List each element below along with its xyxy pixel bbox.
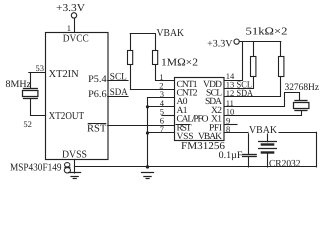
resistor R4 51k xyxy=(280,42,282,57)
wire battery loop right edge xyxy=(316,132,318,167)
svg-text:51kΩ×2: 51kΩ×2 xyxy=(246,27,288,38)
overline RST FM31256 xyxy=(176,124,191,126)
node junction pin7 xyxy=(146,131,149,134)
wire DVSS pin down to ground rail xyxy=(74,160,76,174)
svg-text:7: 7 xyxy=(160,124,164,134)
wire R4 bottom to pin 12 SDA xyxy=(225,77,281,97)
svg-text:SCL: SCL xyxy=(110,71,127,82)
wire pin 10 X1 to crystal bottom xyxy=(225,111,302,116)
wire +3.3V to DVCC pin 1 xyxy=(74,18,76,32)
label VBAK right (on wire, white bg) xyxy=(249,125,279,137)
svg-text:XT2IN: XT2IN xyxy=(49,69,79,80)
wire pin 8 VBAK to battery loop top xyxy=(224,132,316,134)
wire VBAK loop over 1M resistors xyxy=(130,33,155,35)
svg-text:0.1µF: 0.1µF xyxy=(219,150,243,161)
crystal Y1 8MHz xyxy=(23,89,38,99)
svg-text:DVSS: DVSS xyxy=(62,150,87,161)
ground symbol center xyxy=(142,173,154,179)
svg-text:1: 1 xyxy=(67,23,71,33)
svg-text:CR2032: CR2032 xyxy=(269,158,301,169)
labels FM31256 pin numbers right xyxy=(226,71,235,134)
labels FM31256 interior right column xyxy=(198,80,222,142)
wire pin 4 A1 stub xyxy=(148,106,175,108)
svg-text:8MHz: 8MHz xyxy=(6,79,32,90)
svg-text:RST: RST xyxy=(87,123,107,134)
wire pin 5 CAL/PFO stub xyxy=(162,115,175,117)
wire pin 3 A0 to ground bus xyxy=(148,98,175,167)
power +3.3V terminal right xyxy=(234,39,239,44)
svg-text:53: 53 xyxy=(36,63,45,73)
resistor R1 1M left leg xyxy=(130,34,132,51)
resistor R2 1M right leg xyxy=(155,34,157,51)
svg-text:MSP430F149: MSP430F149 xyxy=(10,162,62,173)
labels FM31256 interior left column xyxy=(177,80,209,142)
svg-text:P6.6: P6.6 xyxy=(88,89,107,100)
wire pin 9 PFI stub xyxy=(224,124,237,126)
svg-text:SDA: SDA xyxy=(237,89,254,99)
ground symbol under DVSS xyxy=(69,173,81,179)
svg-text:+3.3V: +3.3V xyxy=(56,3,85,14)
wire XT2IN pin 53 stub xyxy=(29,72,45,74)
svg-text:32768Hz: 32768Hz xyxy=(285,82,320,93)
svg-text:P5.4: P5.4 xyxy=(88,74,107,85)
svg-text:12: 12 xyxy=(226,88,235,98)
wire pin 7 VSS stub xyxy=(148,132,175,134)
wire R1 bottom to pin 2 CNT2 xyxy=(131,65,175,90)
wire R2 bottom to pin 1 CNT1 xyxy=(156,65,175,81)
svg-text:VBAK: VBAK xyxy=(157,28,185,39)
wire +3.3V down to VDD pin 14 xyxy=(225,42,243,81)
resistor R3 51k xyxy=(253,42,255,57)
label RST MSP430 with overline xyxy=(87,123,107,134)
capacitor C1 0.1uF xyxy=(243,132,257,167)
svg-text:8: 8 xyxy=(226,124,230,134)
svg-text:1MΩ×2: 1MΩ×2 xyxy=(161,58,198,69)
labels FM31256 pin numbers left xyxy=(159,72,165,134)
wire +3.3V rail to resistors xyxy=(239,41,280,43)
svg-text:52: 52 xyxy=(23,119,32,129)
svg-text:SDA: SDA xyxy=(110,87,129,98)
wire SCL net label stub (P5.4) xyxy=(108,80,128,82)
svg-text:+3.3V: +3.3V xyxy=(207,39,233,50)
wire SDA net label stub (P6.6) xyxy=(108,96,128,98)
IC U2 FM31256 box xyxy=(175,78,225,141)
ground rail xyxy=(75,166,317,168)
wire pin 11 X2 to crystal top xyxy=(225,93,300,107)
svg-text:XT2OUT: XT2OUT xyxy=(49,111,85,122)
logo glyph after MSP430F149 xyxy=(64,163,70,173)
node junction ground rail xyxy=(146,165,149,168)
op: MCU U1 MSP430F149 box xyxy=(46,33,109,160)
wire crystal top lead xyxy=(30,73,32,89)
svg-text:VBAK: VBAK xyxy=(249,125,277,136)
wire R3 bottom to pin 13 SCL xyxy=(225,77,254,89)
power +3.3V terminal left xyxy=(71,13,76,18)
wire RST to FM31256 pin 6 xyxy=(108,125,175,127)
wire crystal bottom lead to XT2OUT pin 52 xyxy=(31,99,46,116)
battery BT1 CR2032 xyxy=(259,132,277,167)
crystal Y2 32768Hz xyxy=(294,101,309,111)
node junction pin4 xyxy=(146,105,149,108)
svg-text:DVCC: DVCC xyxy=(63,33,89,44)
